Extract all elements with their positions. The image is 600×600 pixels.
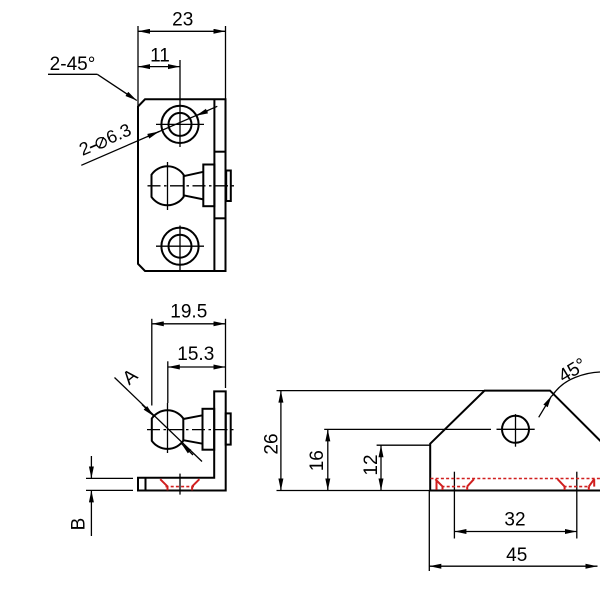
bottom hole counterbore [161,228,198,265]
svg-text:2: 2 [76,137,93,159]
leader 2-dia6.3 hole note [81,106,217,165]
svg-text:6.3: 6.3 [103,120,134,148]
svg-text:15.3: 15.3 [177,344,214,365]
countersink section (red) side view [160,479,199,490]
bottom hole horizontal centerline [156,245,204,247]
top hole horizontal centerline [156,123,204,125]
dimension 15.3 [168,361,226,403]
ball horizontal centerline dash-dot [148,185,235,187]
countersink left (red) [435,479,474,490]
ball neck top [184,172,204,176]
svg-text:45: 45 [506,545,527,566]
ball stud sphere [152,166,184,205]
countersink right (red) [558,479,595,490]
dimension B [86,456,133,536]
stud hole vertical centerline [515,414,517,447]
stud hole horizontal centerline [497,428,535,430]
band line upper [214,151,225,153]
dimension 11 [138,26,180,107]
stud pin end [226,171,231,202]
base end chamfer line [145,478,147,491]
plate inner edge line [213,99,215,271]
svg-text:45°: 45° [555,354,590,387]
dimension 45 [429,491,597,572]
leader 2-45 chamfer note [48,74,137,100]
svg-text:2-45°: 2-45° [50,54,96,75]
svg-text:32: 32 [504,510,525,531]
base hole centerline [179,474,181,495]
dimension 23 [138,26,226,99]
leader 45deg chamfer angle [539,372,600,417]
svg-text:26: 26 [261,433,282,454]
bracket outline with 45deg chamfers [430,391,600,491]
hidden base top line (red dashed) [431,478,600,480]
ball neck bottom [183,440,202,444]
top hole bore [169,113,192,136]
ball horizontal centerline dash-dot [147,429,235,431]
ball neck top [183,415,202,419]
svg-text:11: 11 [150,45,170,66]
top hole counterbore [161,106,198,143]
ball neck bottom [184,195,204,199]
stud flange [203,165,214,207]
svg-text:19.5: 19.5 [170,301,207,322]
plate outline with chamfered left corners [138,99,226,271]
left hole centerline [453,472,455,539]
dimension 12 [377,445,431,490]
svg-text:B: B [69,518,90,531]
top hole vertical centerline [179,60,181,147]
dimension 16 [324,429,491,490]
svg-text:23: 23 [172,10,193,31]
dimension 32 [454,531,576,533]
L-bracket outline [138,391,226,490]
ball vertical centerline [167,403,169,453]
ball vertical centerline [167,162,169,210]
dimension 26 [277,391,485,491]
svg-text:12: 12 [361,454,382,475]
ball stud sphere [152,410,184,449]
dimension 19.5 [152,319,226,406]
bottom hole vertical centerline [179,226,181,272]
bottom hole bore [169,235,192,258]
band line lower [214,217,225,219]
leader A ball note [115,378,203,462]
stud flange [203,409,215,450]
right hole centerline [576,472,578,539]
stud hole [502,416,529,443]
stud pin end [226,413,231,444]
svg-text:16: 16 [307,450,328,471]
